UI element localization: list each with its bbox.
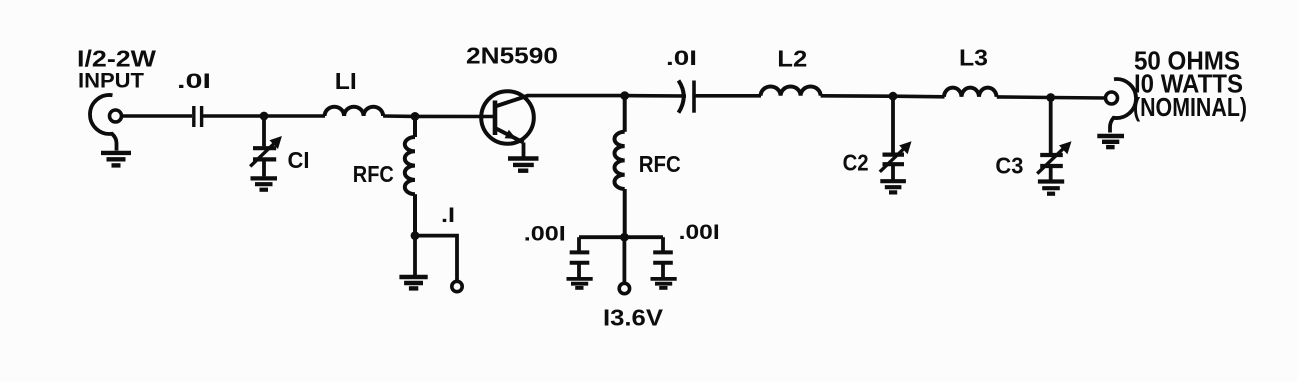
svg-text:2N5590: 2N5590 bbox=[466, 43, 558, 69]
ground (.001 right) bbox=[651, 279, 677, 288]
ground (Q1 emitter) bbox=[508, 159, 539, 171]
inductor L1 bbox=[325, 107, 384, 116]
ground (C1) bbox=[251, 178, 278, 189]
svg-text:LI: LI bbox=[335, 68, 357, 94]
node D (collector / RFC2) bbox=[620, 91, 629, 100]
capacitor .01 (input coupling) bbox=[194, 106, 202, 127]
wire input jack to coupling cap bbox=[122, 114, 193, 118]
ground (output jack) bbox=[1097, 136, 1124, 147]
svg-text:C3: C3 bbox=[995, 152, 1023, 178]
svg-text:RFC: RFC bbox=[639, 151, 681, 177]
svg-text:(NOMINAL): (NOMINAL) bbox=[1133, 92, 1247, 122]
wire L2 to node E bbox=[821, 94, 893, 98]
node A (C1 junction) bbox=[260, 112, 269, 121]
wire node G to left bypass cap bbox=[579, 235, 624, 239]
capacitor .01 (output coupling) bbox=[679, 81, 695, 113]
wire node G to right bypass cap bbox=[624, 235, 663, 239]
terminal .1 bbox=[452, 281, 462, 291]
inductor L3 bbox=[944, 88, 997, 97]
wire node C to .1 terminal bbox=[415, 236, 457, 282]
wire node E to L3 bbox=[893, 94, 945, 98]
capacitor .001 (right bypass) bbox=[653, 237, 673, 277]
node B (base / RFC junction) bbox=[411, 112, 420, 121]
svg-text:INPUT: INPUT bbox=[78, 69, 144, 93]
node F (C3 junction) bbox=[1046, 93, 1055, 102]
svg-text:CI: CI bbox=[288, 147, 310, 173]
RFC choke (collector) bbox=[615, 96, 625, 238]
RFC choke (base) bbox=[405, 116, 415, 235]
wire node B to Q1 base bbox=[415, 115, 495, 119]
svg-text:L3: L3 bbox=[959, 45, 988, 71]
svg-text:.00I: .00I bbox=[524, 222, 566, 245]
transistor Q1 2N5590 bbox=[481, 91, 534, 156]
inductor L2 bbox=[761, 87, 821, 96]
terminal 13.6V supply bbox=[619, 283, 629, 293]
svg-text:C2: C2 bbox=[843, 149, 869, 175]
svg-text:I3.6V: I3.6V bbox=[603, 305, 664, 331]
ground (.001 left) bbox=[567, 279, 593, 288]
capacitor .001 (left bypass) bbox=[570, 237, 590, 277]
svg-text:.I: .I bbox=[441, 204, 455, 227]
wire L1 to node B bbox=[383, 114, 415, 118]
wire Q1 collector to node D bbox=[527, 94, 625, 98]
node C (RFC1 bottom junction) bbox=[411, 231, 420, 240]
variable capacitor C1 bbox=[250, 116, 276, 176]
wire node F to output jack bbox=[1051, 96, 1106, 100]
wire L3 to node F bbox=[997, 95, 1051, 99]
svg-text:L2: L2 bbox=[777, 46, 807, 72]
ground (input jack) bbox=[101, 153, 131, 166]
wire output cap to L2 bbox=[694, 94, 761, 98]
wire node D to output coupling cap bbox=[625, 94, 686, 98]
svg-text:I/2-2W: I/2-2W bbox=[77, 45, 156, 71]
node G (RFC2 bottom / supply junction) bbox=[620, 233, 629, 242]
ground (C2) bbox=[880, 181, 906, 192]
variable capacitor C2 bbox=[880, 96, 907, 179]
ground (RFC1) bbox=[399, 236, 427, 289]
svg-text:.00I: .00I bbox=[679, 221, 720, 244]
input jack J1 bbox=[90, 95, 122, 151]
svg-text:RFC: RFC bbox=[353, 161, 394, 187]
node E (C2 junction) bbox=[889, 92, 898, 101]
variable capacitor C3 bbox=[1037, 98, 1065, 180]
wire node A to L1 bbox=[264, 114, 325, 118]
svg-text:.0I: .0I bbox=[666, 47, 697, 70]
wire node G to supply terminal bbox=[623, 237, 627, 283]
svg-text:.0I: .0I bbox=[177, 70, 211, 93]
wire coupling cap to node A bbox=[203, 114, 264, 118]
output jack J2 bbox=[1106, 79, 1137, 132]
ground (C3) bbox=[1038, 182, 1064, 194]
